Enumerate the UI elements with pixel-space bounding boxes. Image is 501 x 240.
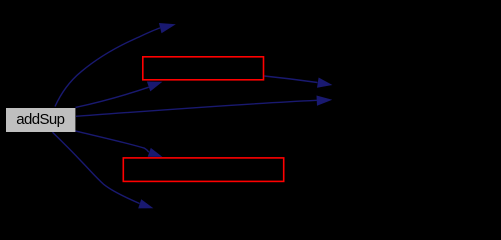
wire: edge addSup to bottom node [53,132,140,203]
arrowhead edge D [317,78,332,88]
node addSup (current node, grey) [6,108,75,132]
arrowhead edge E [148,148,163,157]
arrowhead edge F [138,199,153,208]
wire: edge addSup to top node [55,28,160,107]
arrowhead edge C [317,96,333,106]
wire: edge red box 1 to right node [264,76,317,83]
wire: edge addSup to right node [76,100,317,116]
svg-text:addSup: addSup [16,111,64,128]
wire: edge addSup to red box 2 [75,131,149,152]
arrowhead edge A [159,23,176,33]
node red box 1 (truncated node) [143,57,264,80]
arrowhead edge B [147,82,163,92]
node red box 2 (truncated node) [123,158,283,182]
wire: edge addSup to red box 1 [76,87,149,107]
